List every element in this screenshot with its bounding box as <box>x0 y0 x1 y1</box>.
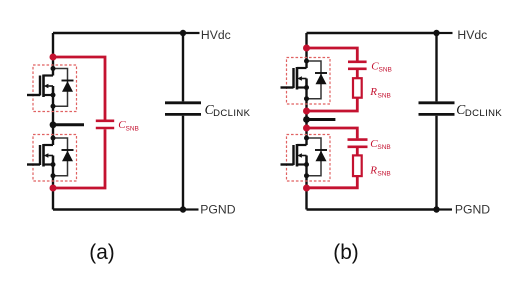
wire: DC-link branch lower lead (a) <box>182 116 184 210</box>
svg-text:SNB: SNB <box>378 92 391 99</box>
capacitor C_SNB lower (b) <box>348 140 368 147</box>
svg-text:DCLINK: DCLINK <box>465 108 503 119</box>
wire: DC-link branch lower lead (b) <box>435 116 437 210</box>
wire: bottom rail circuit (a), PGND net <box>53 208 183 210</box>
wire: bottom rail circuit (b), PGND net <box>307 208 437 210</box>
svg-text:(b): (b) <box>333 241 358 264</box>
wire: phase output stub (b) <box>307 118 336 121</box>
value label C_SNB lower (b) <box>370 138 391 151</box>
resistor R_SNB lower (b) <box>353 155 362 176</box>
transistor Q1 (MOSFET with body diode, circuit a) <box>27 65 77 112</box>
svg-text:R: R <box>369 165 377 177</box>
wire: PGND terminal stub (b) <box>437 208 453 210</box>
svg-text:(a): (a) <box>89 241 114 264</box>
svg-text:R: R <box>369 86 377 98</box>
wire: top rail circuit (a), HVdc net <box>53 32 183 34</box>
svg-text:DCLINK: DCLINK <box>213 108 251 119</box>
capacitor C_SNB (a) <box>96 121 114 128</box>
svg-text:SNB: SNB <box>126 125 139 132</box>
wire: left vertical (a), Q2 source down to bottom rail <box>52 156 54 210</box>
transistor Q2 (MOSFET with body diode, circuit a) <box>27 135 77 182</box>
svg-text:HVdc: HVdc <box>457 28 487 42</box>
node: PGND junction (b) <box>433 206 439 212</box>
node: phase midpoint junction (a) with output stub <box>50 121 57 128</box>
transistor Q4 (MOSFET with body diode, circuit b) <box>281 135 331 182</box>
node: snubber top connection (a), red junction dot <box>50 54 57 61</box>
value label R_SNB upper (b) <box>369 86 391 99</box>
wire: lower snubber C-to-R lead (b), red <box>356 148 359 155</box>
value label C_DCLINK (a) <box>205 102 251 119</box>
wire: snubber top lead (a), red <box>53 57 105 120</box>
svg-text:PGND: PGND <box>200 203 235 217</box>
svg-text:SNB: SNB <box>377 171 390 178</box>
value label R_SNB lower (b) <box>369 165 391 178</box>
wire: lower snubber top lead (b), red <box>307 128 358 138</box>
wire: upper snubber C-to-R lead (b), red <box>356 70 359 78</box>
wire: HVdc terminal stub (a) <box>183 32 200 34</box>
node: HVdc junction (b) <box>433 30 439 36</box>
node: lower snubber top connection (b), red junction dot <box>303 125 310 132</box>
node: snubber bottom connection (a), red junction dot <box>50 185 57 192</box>
svg-text:PGND: PGND <box>455 203 490 217</box>
node: phase midpoint junction (b) with output stub <box>303 116 310 123</box>
wire: top rail circuit (b), HVdc net <box>307 32 437 34</box>
wire: upper snubber top lead (b), red <box>307 48 358 61</box>
svg-text:SNB: SNB <box>379 67 392 74</box>
value label C_SNB (a) <box>118 119 139 132</box>
wire: PGND terminal stub (a) <box>183 208 199 210</box>
node: upper snubber bottom connection (b), red junction dot <box>303 108 310 115</box>
transistor Q3 (MOSFET with body diode, circuit b) <box>281 58 331 105</box>
wire: left vertical (b), Q4 source to bottom rail <box>305 156 307 210</box>
svg-text:HVdc: HVdc <box>201 28 231 42</box>
node: PGND junction (a) <box>180 206 186 212</box>
wire: left vertical (b), top rail to Q3 drain <box>305 33 307 68</box>
wire: DC-link branch upper lead (b) <box>435 33 437 101</box>
node: HVdc junction (a) <box>180 30 186 36</box>
wire: phase output stub (a) <box>53 123 84 126</box>
wire: left vertical (a), Q1 body/source down to midpoint and Q2 drain <box>52 86 54 145</box>
capacitor C_DCLINK (a) <box>165 103 201 115</box>
wire: DC-link branch upper lead (a) <box>182 33 184 101</box>
wire: left vertical (a), top rail to Q1 drain <box>52 33 54 76</box>
wire: upper snubber bottom lead (b), red <box>307 98 358 111</box>
wire: HVdc terminal stub (b) <box>437 32 453 34</box>
capacitor C_SNB upper (b) <box>348 62 367 69</box>
svg-text:SNB: SNB <box>377 144 390 151</box>
wire: left vertical (b), Q3 body/source to midpoint and Q4 drain <box>305 79 307 146</box>
value label C_SNB upper (b) <box>371 60 392 73</box>
wire: snubber bottom lead (a), red <box>53 129 105 188</box>
resistor R_SNB upper (b) <box>353 78 362 98</box>
value label C_DCLINK (b) <box>456 102 502 119</box>
node: upper snubber top connection (b), red junction dot <box>303 45 310 52</box>
wire: lower snubber bottom lead (b), red <box>307 176 358 188</box>
node: lower snubber bottom connection (b), red junction dot <box>303 185 310 192</box>
capacitor C_DCLINK (b) <box>419 103 455 115</box>
